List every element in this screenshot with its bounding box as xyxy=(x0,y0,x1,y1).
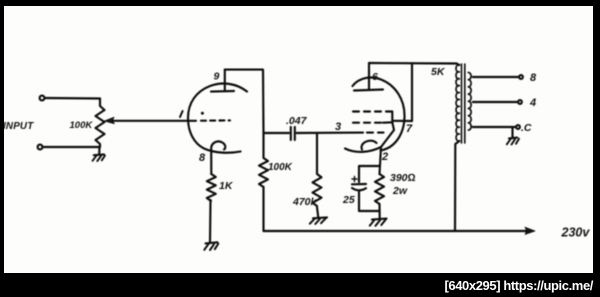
wire screen drop from B+ line xyxy=(411,64,413,122)
svg-text:2: 2 xyxy=(381,151,388,163)
transformer T1 secondary winding xyxy=(468,72,471,130)
pin 7 label xyxy=(406,123,413,135)
label tap 8 xyxy=(530,72,537,84)
wire T1 primary bottom to rail xyxy=(455,141,459,231)
svg-text:6: 6 xyxy=(372,71,378,83)
wire V2 plate to transformer primary xyxy=(369,63,459,65)
pin 6 label xyxy=(372,71,378,83)
wire secondary tap C xyxy=(473,125,520,129)
svg-text:9: 9 xyxy=(214,71,220,83)
svg-text:230v: 230v xyxy=(561,226,591,240)
svg-text:100K: 100K xyxy=(70,120,94,131)
svg-text:.047: .047 xyxy=(286,115,308,127)
potentiometer 100K volume control xyxy=(96,99,105,148)
label tap C xyxy=(521,122,532,134)
svg-text:3: 3 xyxy=(335,121,341,133)
tube V2 screen grid row dashed xyxy=(353,112,392,123)
capacitor C2 25uF bypass xyxy=(352,177,366,191)
wire wiper arrow to V1 grid xyxy=(105,117,197,124)
wire input lower to pot bottom xyxy=(43,146,101,148)
tube V1 envelope xyxy=(188,84,247,153)
transformer T1 primary winding xyxy=(456,65,459,141)
wire V1 plate up and right to junction xyxy=(225,70,264,133)
wire input upper to pot top xyxy=(45,97,101,100)
capacitor C1 .047 coupling xyxy=(264,127,295,140)
resistor 1K cathode xyxy=(207,174,216,201)
tube V1 plate pin 9 xyxy=(211,70,234,92)
svg-text:8: 8 xyxy=(530,72,537,84)
wire C2 bottom to junction xyxy=(359,191,380,212)
resistor 390 ohm 2W cathode xyxy=(375,174,384,204)
tube V2 cathode pin 2 xyxy=(345,141,381,152)
tube V2 envelope xyxy=(353,78,405,151)
tube V1 grid dashed xyxy=(201,112,230,121)
label 1K xyxy=(219,180,234,192)
wire branch to C2 xyxy=(359,166,380,182)
label INPUT xyxy=(3,121,34,132)
svg-text:2w: 2w xyxy=(392,185,408,197)
pin 8 label xyxy=(199,152,206,164)
node 3 label xyxy=(335,121,341,133)
tube V2 grid row 2 dashed xyxy=(353,121,392,124)
label 5K primary impedance xyxy=(431,66,446,78)
resistor 470K grid leak xyxy=(313,133,322,206)
wire beam plates to cathode xyxy=(381,122,394,147)
label 230v xyxy=(561,226,591,240)
pin 2 label xyxy=(381,151,388,163)
svg-text:390Ω: 390Ω xyxy=(390,172,416,184)
transformer T1 core xyxy=(462,64,465,143)
svg-text:5K: 5K xyxy=(431,66,446,78)
label 470k xyxy=(292,196,318,208)
pin 1 label xyxy=(180,111,183,117)
svg-text:470k: 470k xyxy=(292,196,318,208)
label 25 xyxy=(342,194,355,206)
wire pin 7 screen connection xyxy=(393,120,412,122)
svg-text:100K: 100K xyxy=(268,162,293,173)
node INPUT upper terminal xyxy=(40,96,45,101)
wire 100K down to B+ rail corner xyxy=(262,187,264,231)
ground V2 cathode xyxy=(370,219,387,226)
wire B+ rail 230v xyxy=(264,227,536,234)
tube V2 control grid row dashed xyxy=(367,132,384,134)
svg-text:4: 4 xyxy=(529,97,536,109)
ground pot xyxy=(93,147,106,161)
label tap 4 xyxy=(529,97,536,109)
svg-text:7: 7 xyxy=(406,123,413,135)
wire 1K to ground xyxy=(209,200,212,242)
wire V2 cathode lead down xyxy=(380,147,382,174)
wire C1 to V2 grid node 3 xyxy=(297,132,363,135)
ground 470K xyxy=(310,207,327,224)
svg-text:.C: .C xyxy=(521,122,532,134)
label 100K xyxy=(268,162,293,173)
label 390 ohm xyxy=(390,172,416,184)
label .047 xyxy=(286,115,308,127)
wire secondary tap 8 xyxy=(473,75,523,79)
svg-text:25: 25 xyxy=(342,194,355,206)
svg-text:[640x295] https://upic.me/: [640x295] https://upic.me/ xyxy=(444,278,593,293)
node INPUT lower terminal xyxy=(38,145,43,150)
wire to ground V2 cathode xyxy=(378,204,380,219)
ground secondary common xyxy=(507,128,519,145)
ground 1K xyxy=(204,242,218,250)
svg-text:INPUT: INPUT xyxy=(3,121,34,132)
tube V2 plate pin 6 xyxy=(354,63,383,91)
resistor 100K plate load xyxy=(259,133,268,187)
label 2w xyxy=(392,185,408,197)
label 100K pot value xyxy=(70,120,94,131)
tube V1 cathode pin 8 xyxy=(211,141,225,174)
pin 9 label xyxy=(214,71,220,83)
wire secondary tap 4 xyxy=(473,100,522,104)
svg-text:8: 8 xyxy=(199,152,206,164)
svg-text:1K: 1K xyxy=(219,180,234,192)
